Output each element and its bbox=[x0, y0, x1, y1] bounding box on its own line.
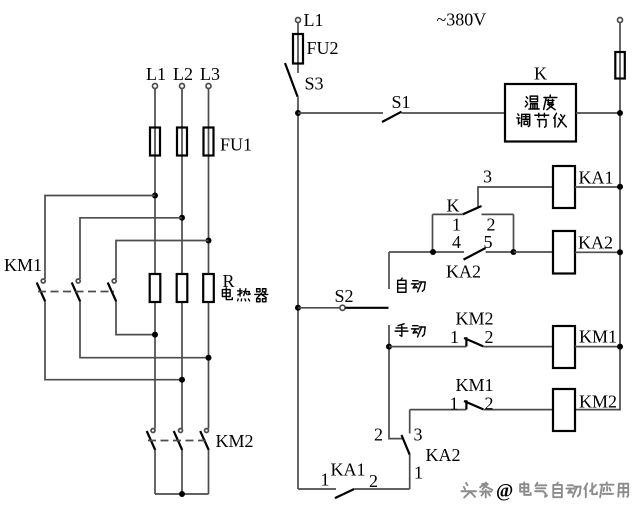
svg-text:FU1: FU1 bbox=[220, 135, 252, 155]
svg-text:L2: L2 bbox=[173, 64, 193, 84]
wire S1 row left bbox=[298, 112, 383, 114]
wire bottom row left bbox=[298, 488, 336, 490]
switch S1 blade bbox=[382, 112, 402, 122]
wire KM1 row left bbox=[389, 346, 466, 348]
svg-text:R: R bbox=[223, 271, 235, 291]
wire KM1 pole1 bottom bbox=[45, 302, 182, 380]
wire KM2 pole1 bottom bbox=[154, 450, 156, 494]
svg-text:L1: L1 bbox=[304, 10, 324, 30]
svg-text:4: 4 bbox=[452, 232, 461, 252]
contact KM1 NC blade bbox=[464, 401, 483, 409]
changeover KA2 terminal3 stub bbox=[409, 410, 411, 434]
svg-text:2: 2 bbox=[374, 425, 383, 445]
changeover KA2 blade bbox=[402, 435, 410, 455]
svg-text:L1: L1 bbox=[146, 64, 166, 84]
wire manual branch bbox=[389, 325, 403, 439]
KM2 gang dashed link bbox=[148, 440, 207, 442]
node right rail KA2 bbox=[617, 249, 623, 255]
contactor coil KM2 bbox=[553, 389, 575, 431]
wire L1 to fuse and S3 stub bbox=[297, 23, 299, 74]
svg-text:KA2: KA2 bbox=[446, 262, 481, 282]
fuse FU1 phase B bbox=[177, 128, 187, 156]
node bottom rail right bbox=[511, 249, 517, 255]
contactor coil KM1 bbox=[553, 326, 575, 368]
label 自动 bbox=[398, 278, 426, 292]
svg-text:1: 1 bbox=[450, 394, 459, 414]
wire phase C vertical bbox=[208, 89, 210, 429]
svg-text:2: 2 bbox=[485, 327, 494, 347]
wire bottom rail right bbox=[486, 251, 514, 253]
wire KM1 pole2 bottom bbox=[80, 302, 209, 358]
wire KM1 pole3 top bbox=[116, 241, 209, 280]
svg-text:1: 1 bbox=[321, 470, 330, 490]
svg-text:1: 1 bbox=[450, 327, 459, 347]
wire left rail bbox=[297, 97, 299, 489]
contactor KM1 pole2 contact bbox=[72, 279, 81, 302]
resistor R heater phase A bbox=[150, 274, 161, 302]
svg-text:KA2: KA2 bbox=[578, 233, 613, 253]
svg-text:KM2: KM2 bbox=[456, 309, 494, 329]
fuse FU1 phase A bbox=[150, 128, 160, 156]
switch S2 pivot bbox=[340, 305, 345, 310]
contact K blade bbox=[463, 206, 482, 214]
contactor KM2 pole3 contact bbox=[200, 429, 209, 451]
svg-text:KA1: KA1 bbox=[331, 460, 366, 480]
svg-text:3: 3 bbox=[414, 425, 423, 445]
wire auto branch bbox=[388, 252, 390, 289]
fuse FU1 phase C bbox=[204, 128, 214, 156]
svg-text:FU2: FU2 bbox=[307, 38, 339, 58]
svg-text:5: 5 bbox=[484, 232, 493, 252]
fuse FU3 right rail bbox=[615, 52, 625, 79]
terminal right rail top bbox=[618, 18, 623, 23]
wire phase B vertical bbox=[181, 89, 183, 429]
resistor R heater phase B bbox=[177, 274, 188, 302]
contactor KM2 pole1 contact bbox=[147, 429, 156, 451]
svg-text:L3: L3 bbox=[200, 64, 220, 84]
wire S2 row bbox=[298, 307, 340, 309]
wire KM1 row right bbox=[483, 346, 553, 348]
svg-text:K: K bbox=[447, 196, 460, 216]
wire KA2 coil to rail bbox=[575, 251, 620, 253]
contact K top rail left bbox=[433, 213, 463, 215]
node phase C / KM1 branch bbox=[206, 238, 212, 244]
terminal L3 bbox=[206, 84, 211, 89]
wire KM2 pole2 bottom bbox=[181, 450, 183, 494]
wire controller to right rail bbox=[576, 112, 620, 114]
svg-text:KM1: KM1 bbox=[456, 375, 494, 395]
label 电热器 bbox=[222, 288, 267, 302]
relay coil KA1 bbox=[553, 166, 575, 208]
wire KM1 coil to rail bbox=[575, 346, 620, 348]
terminal L1 control bbox=[296, 18, 301, 23]
KM1 gang dashed link bbox=[38, 291, 114, 293]
contact KA2 blade (4-5) bbox=[464, 248, 486, 260]
svg-text:S2: S2 bbox=[335, 286, 354, 306]
node right rail S1 row bbox=[617, 110, 623, 116]
node phase A / KM1 branch bbox=[152, 193, 158, 199]
wire right rail bbox=[575, 23, 620, 410]
contactor KM2 pole2 contact bbox=[174, 429, 183, 451]
fuse FU2 bbox=[293, 34, 303, 64]
svg-text:K: K bbox=[534, 64, 547, 84]
node bottom tie bbox=[179, 491, 185, 497]
wire bottom row right bbox=[354, 488, 410, 490]
contactor KM1 pole1 contact bbox=[37, 279, 46, 302]
terminal L2 bbox=[180, 84, 185, 89]
contact K top rail right bbox=[482, 213, 514, 215]
watermark 头条@电气自动化应用 bbox=[463, 484, 630, 499]
wire 3 to KA1 bbox=[478, 187, 553, 207]
svg-text:KA1: KA1 bbox=[579, 168, 614, 188]
wire KM2 row left bbox=[410, 409, 467, 411]
svg-text:2: 2 bbox=[485, 394, 494, 414]
node right rail KA1 bbox=[617, 184, 623, 190]
svg-text:KM1: KM1 bbox=[579, 327, 617, 347]
svg-text:KM1: KM1 bbox=[4, 255, 42, 275]
contact KM2 NC seat bbox=[465, 337, 467, 346]
svg-text:2: 2 bbox=[369, 471, 378, 491]
svg-text:KA2: KA2 bbox=[426, 445, 461, 465]
label 手动 bbox=[395, 324, 425, 337]
wire KM1 pole2 top bbox=[80, 218, 182, 279]
wire K box left vertical bbox=[432, 214, 434, 252]
contact KA1 blade (1-2) bbox=[335, 489, 354, 498]
temperature controller U1 box bbox=[505, 84, 576, 142]
label 温度 inside controller bbox=[525, 95, 557, 110]
wire S1 row right bbox=[402, 112, 506, 114]
svg-text:KM2: KM2 bbox=[579, 392, 617, 412]
node left rail S2 row bbox=[295, 305, 301, 311]
svg-text:3: 3 bbox=[483, 167, 492, 187]
switch S3 blade bbox=[285, 63, 298, 97]
svg-text:S1: S1 bbox=[392, 92, 411, 112]
wire KM1 pole3 bottom bbox=[116, 302, 155, 335]
terminal L1 bbox=[153, 84, 158, 89]
node left rail / S1 row bbox=[295, 110, 301, 116]
wire phase A vertical bbox=[154, 89, 156, 429]
switch S2 blade bbox=[345, 307, 388, 309]
wire KA1 to rail bbox=[575, 186, 620, 188]
svg-text:1: 1 bbox=[414, 463, 423, 483]
node right rail KM1 bbox=[617, 344, 623, 350]
wire to KA2 coil bbox=[514, 251, 554, 253]
wire KA2 common bbox=[409, 455, 411, 489]
resistor R heater phase C bbox=[203, 274, 214, 302]
node phase B / KM1 branch bbox=[179, 215, 185, 221]
wire K box right vertical bbox=[513, 214, 515, 252]
wire KM1 pole1 top bbox=[45, 196, 155, 280]
node KM1 pole2 to phase C bbox=[206, 355, 212, 361]
wire bottom rail with KA2 contact left bbox=[389, 251, 464, 253]
node manual / KM1 row bbox=[386, 344, 392, 350]
svg-text:@: @ bbox=[496, 482, 513, 502]
wire KM2 pole3 bottom bbox=[208, 450, 210, 494]
relay coil KA2 bbox=[553, 231, 575, 274]
svg-text:KM2: KM2 bbox=[216, 431, 254, 451]
contact KM1 NC seat bbox=[465, 400, 467, 409]
svg-text:~380V: ~380V bbox=[437, 10, 487, 30]
wire KM2 row right bbox=[483, 409, 553, 411]
wire bottom tie bbox=[155, 493, 209, 495]
node bottom rail left bbox=[430, 249, 436, 255]
contact KM2 NC blade bbox=[464, 338, 483, 346]
node KM1 pole1 to phase B bbox=[179, 377, 185, 383]
contactor KM1 pole3 contact bbox=[108, 279, 117, 302]
node KM1 pole3 to phase A bbox=[152, 332, 158, 338]
svg-text:S3: S3 bbox=[305, 74, 324, 94]
label 调节仪 inside controller bbox=[517, 113, 567, 127]
